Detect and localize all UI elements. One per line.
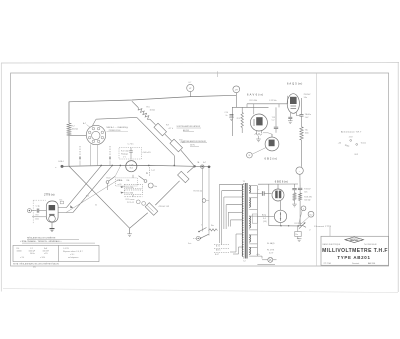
svg-text:4.7 k: 4.7 k: [169, 128, 173, 130]
svg-text:RÉGLAGE MILLIVOLTMÈTRE: RÉGLAGE MILLIVOLTMÈTRE: [27, 236, 56, 239]
svg-text:6 A Q 5 (ττ): 6 A Q 5 (ττ): [287, 81, 302, 85]
svg-text:R.1 5 kΩ: R.1 5 kΩ: [121, 150, 129, 152]
svg-text:Γ 4.7: Γ 4.7: [151, 170, 155, 172]
svg-text:N.2: N.2: [310, 214, 313, 216]
svg-text:Σ.P.O 4.2: Σ.P.O 4.2: [127, 202, 134, 204]
svg-text:AB 204: AB 204: [368, 262, 376, 265]
svg-text:27.7.56: 27.7.56: [324, 263, 332, 265]
svg-text:R.8 56 kΩ: R.8 56 kΩ: [194, 191, 203, 193]
svg-text:M.4: M.4: [130, 168, 133, 170]
svg-text:2TT8 (ττ): 2TT8 (ττ): [44, 192, 55, 196]
svg-text:RESA: RESA: [350, 239, 358, 242]
svg-text:Réglage: Réglage: [121, 154, 128, 156]
svg-text:m.20: m.20: [118, 184, 122, 186]
svg-text:10 kΩ: 10 kΩ: [150, 110, 156, 112]
svg-text:±1%: ±1%: [44, 253, 48, 255]
svg-text:P.4 1kV: P.4 1kV: [304, 189, 311, 191]
svg-text:100k: 100k: [305, 133, 309, 135]
svg-text:(14): (14): [263, 221, 267, 223]
svg-text:+50: +50: [338, 142, 341, 144]
svg-text:Fil. 6AQ5: Fil. 6AQ5: [267, 242, 275, 245]
svg-text:RADIO ÉLECTRIQUE: RADIO ÉLECTRIQUE: [323, 243, 341, 246]
svg-text:C.2: C.2: [272, 120, 275, 122]
svg-text:Dessiné: Dessiné: [352, 263, 360, 265]
svg-text:100 kΩ: 100 kΩ: [72, 129, 79, 131]
svg-text:± 10%: ± 10%: [40, 257, 45, 259]
svg-text:R.9: R.9: [36, 214, 39, 216]
svg-text:RÉGL: RÉGL: [118, 179, 123, 182]
svg-text:Réponse valeur C.4, R.7: Réponse valeur C.4, R.7: [63, 251, 83, 253]
svg-text:50n: 50n: [304, 192, 307, 194]
svg-text:Tél. REN 34-48: Tél. REN 34-48: [364, 244, 376, 246]
svg-text:6 A V 6 (ττ): 6 A V 6 (ττ): [247, 92, 263, 96]
svg-text:500 kΩ: 500 kΩ: [304, 199, 311, 201]
svg-text:R.10 470k: R.10 470k: [126, 187, 134, 189]
svg-text:1 kΩ: 1 kΩ: [35, 219, 39, 221]
svg-text:(ττ): (ττ): [33, 266, 36, 268]
svg-text:TYPE AB201: TYPE AB201: [337, 255, 370, 260]
svg-text:10n: 10n: [295, 234, 298, 236]
svg-text:NOTA : RÉGLAGE AVEC MILLIVOL: NOTA : RÉGLAGE AVEC MILLIVOLTMÈTRE ÉTALO…: [13, 263, 59, 266]
svg-text:C.12 50n: C.12 50n: [269, 100, 277, 102]
svg-text:C.4 7Ω: C.4 7Ω: [63, 248, 69, 250]
svg-text:MILLIVOLTMETRE T.H.F: MILLIVOLTMETRE T.H.F: [322, 248, 388, 254]
svg-text:50n: 50n: [304, 97, 307, 99]
svg-text:± 10⁻⁷: ± 10⁻⁷: [70, 253, 75, 256]
svg-text:R.18 470: R.18 470: [304, 196, 312, 198]
svg-text:3k: 3k: [95, 205, 97, 207]
svg-text:R.20: R.20: [107, 178, 111, 180]
svg-text:470 kΩ 1 W: 470 kΩ 1 W: [159, 206, 170, 208]
svg-text:6 B 2 (ττ): 6 B 2 (ττ): [265, 157, 278, 161]
svg-text:R.13: R.13: [237, 118, 241, 120]
svg-text:C.7 4n: C.7 4n: [128, 144, 134, 146]
svg-text:s: s: [55, 167, 56, 169]
svg-text:T.13: T.13: [272, 117, 275, 119]
svg-text:NBK A.1 — CHASSIS(τ): NBK A.1 — CHASSIS(τ): [107, 126, 129, 129]
svg-text:10000: 10000: [17, 250, 22, 252]
svg-text:T.A 50n: T.A 50n: [305, 113, 311, 116]
svg-text:en fréquence: en fréquence: [68, 257, 79, 259]
svg-text:Fil. 2TT8: Fil. 2TT8: [267, 250, 274, 252]
svg-text:Trame: Trame: [361, 142, 366, 145]
svg-text:SORTIE AMPLIFICATEUR: SORTIE AMPLIFICATEUR: [177, 125, 201, 128]
svg-text:P.B 2kV: P.B 2kV: [304, 94, 311, 96]
svg-text:R.15 56k: R.15 56k: [250, 100, 258, 102]
svg-text:4 kΩ ±5%: 4 kΩ ±5%: [143, 152, 152, 154]
svg-text:6 B E 6 (ττ): 6 B E 6 (ττ): [275, 180, 288, 184]
svg-text:B.GT: B.GT: [215, 254, 219, 256]
svg-text:± 1%: ± 1%: [20, 257, 24, 259]
svg-text:A.B.C: A.B.C: [216, 249, 221, 252]
svg-text:R.12 comm: R.12 comm: [126, 199, 135, 201]
svg-text:ENTREE AMPLIFICATEUR: ENTREE AMPLIFICATEUR: [182, 140, 207, 143]
svg-text:E4 A.1: E4 A.1: [59, 160, 64, 163]
svg-text:2n: 2n: [226, 115, 228, 117]
svg-text:Filament 2TT8: Filament 2TT8: [314, 225, 331, 228]
svg-text:2.0: 2.0: [127, 180, 130, 182]
svg-text:Alimentation T.H.T: Alimentation T.H.T: [341, 130, 362, 133]
svg-text:5.2: 5.2: [243, 260, 246, 262]
svg-text:50 Hz: 50 Hz: [30, 253, 35, 255]
svg-text:« ÉTALONNAGE : TENSION : GÉN: « ÉTALONNAGE : TENSION : GÉNÉRALE »: [20, 240, 62, 243]
svg-text:R.11 1MΩ: R.11 1MΩ: [126, 193, 134, 195]
